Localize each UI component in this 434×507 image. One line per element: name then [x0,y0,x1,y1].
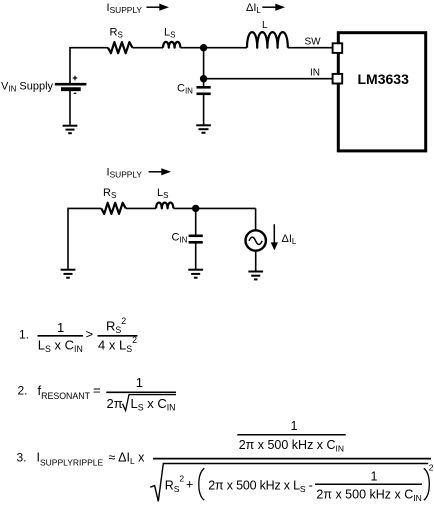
wire battery top to rail [70,48,108,83]
arrow delta IL (second circuit, pointing down) [271,224,278,250]
svg-text:2π x 500 kHz x LS -: 2π x 500 kHz x LS - [208,478,312,494]
wire current source to ground [255,251,257,271]
wire corner down to current source [255,208,257,230]
wire node to capacitor CIN (second circuit) [195,208,197,234]
battery minus sign [74,92,77,94]
svg-text:VIN Supply: VIN Supply [1,80,54,93]
ground (capacitor CIN, top circuit) [196,125,211,133]
wire resistor to inductor LS [132,47,163,49]
svg-text:CIN: CIN [172,232,188,245]
svg-text:CIN: CIN [177,83,193,96]
svg-text:LS x CIN: LS x CIN [131,396,176,413]
svg-text:2: 2 [429,463,434,473]
svg-text:3.: 3. [17,451,27,465]
svg-text:1: 1 [136,375,143,390]
inductor L [247,32,288,48]
node junction dot (second circuit) [192,205,199,212]
svg-text:=: = [93,382,101,397]
inductor LS (second circuit) [156,203,173,209]
svg-text:ISUPPLYRIPPLE: ISUPPLYRIPPLE [37,451,104,468]
equation 1 fraction bar (RS^2 / 4 x LS^2) [98,335,138,337]
IC LM3633 box [338,33,425,151]
wire capacitor to ground (second circuit) [195,244,197,270]
sine wave inside current source [249,237,262,244]
equation 2 square root radical [123,395,177,411]
wire node to capacitor CIN [203,79,205,86]
current source I1 (sine source circle) [246,230,266,250]
svg-text:LM3633: LM3633 [358,71,410,87]
svg-text:ΔIL: ΔIL [282,233,297,246]
svg-text:RS2: RS2 [165,473,185,494]
wire inductor to current source corner [173,207,255,209]
svg-text:4 x LS2: 4 x LS2 [98,335,137,354]
svg-text:2π x 500 kHz x CIN: 2π x 500 kHz x CIN [239,438,344,454]
equation 1 fraction bar (1 / LS x CIN) [38,335,84,337]
inductor LS (top circuit) [163,42,180,48]
pin IN square [333,74,343,84]
battery plus sign [73,76,78,81]
svg-text:RS: RS [103,187,116,200]
svg-text:ISUPPLY: ISUPPLY [107,2,143,15]
wire battery bottom to ground [69,91,71,125]
wire node to IN rail (vertical) [203,48,205,79]
ground (current source) [248,272,263,280]
svg-text:2.: 2. [18,384,28,398]
svg-text:1.: 1. [19,327,29,341]
pin SW square [333,43,343,53]
equation 3 big square root radical [150,464,428,502]
capacitor CIN (top circuit) plate 2 [197,93,211,96]
arrow delta IL (top circuit) [262,4,285,11]
node junction dot top rail [200,44,207,51]
equation 3 numerator-fraction bar [237,434,345,436]
equation 3 main fraction bar [153,458,431,460]
wire capacitor CIN to ground [203,95,205,125]
equation 3 inner fraction bar [315,483,422,485]
svg-text:2π: 2π [107,396,123,411]
svg-text:+: + [186,477,193,491]
svg-text:2π x 500 kHz x CIN: 2π x 500 kHz x CIN [316,487,421,503]
battery VIN: minus terminal bar [61,87,81,91]
svg-text:ISUPPLY: ISUPPLY [107,166,143,179]
wire node to IN pin [204,78,333,80]
svg-text:1: 1 [57,320,64,335]
svg-text:ΔIL: ΔIL [246,2,261,15]
svg-text:LS x CIN: LS x CIN [38,338,83,355]
node junction dot IN rail [200,75,207,82]
svg-text:SW: SW [305,36,322,47]
capacitor CIN (second circuit) plate 1 [189,235,203,238]
svg-text:L: L [262,20,268,31]
battery VIN: plus terminal bar [55,83,87,86]
svg-text:>: > [86,327,94,342]
svg-text:RS: RS [110,26,123,39]
equation 3 big open parenthesis [199,468,205,500]
svg-text:1: 1 [291,419,298,433]
svg-text:RS2: RS2 [106,316,126,335]
svg-text:LS: LS [157,187,168,200]
wire resistor to inductor (second circuit) [126,207,156,209]
svg-text:LS: LS [164,26,175,39]
wire left rail (second circuit) [68,208,101,268]
ground (battery) [63,126,78,134]
svg-text:fRESONANT: fRESONANT [38,383,91,401]
arrow ISUPPLY (second circuit) [149,168,171,175]
equation 3 big close parenthesis [424,468,430,500]
svg-text:IN: IN [310,67,320,78]
resistor RS (top circuit) [108,42,132,53]
resistor RS (second circuit) [101,203,125,214]
svg-text:1: 1 [371,469,378,483]
capacitor CIN (top circuit) plate 1 [197,86,211,89]
svg-text:≈ ΔIL x: ≈ ΔIL x [109,451,146,467]
ground (capacitor CIN, second circuit) [188,270,203,278]
capacitor CIN (second circuit) plate 2 [189,241,203,244]
ground (left rail, second circuit) [61,270,76,278]
wire inductor LS to inductor L [180,47,247,49]
arrow ISUPPLY (top circuit) [147,4,170,11]
wire inductor L to SW pin [288,47,333,49]
equation 2 fraction bar [106,391,176,393]
